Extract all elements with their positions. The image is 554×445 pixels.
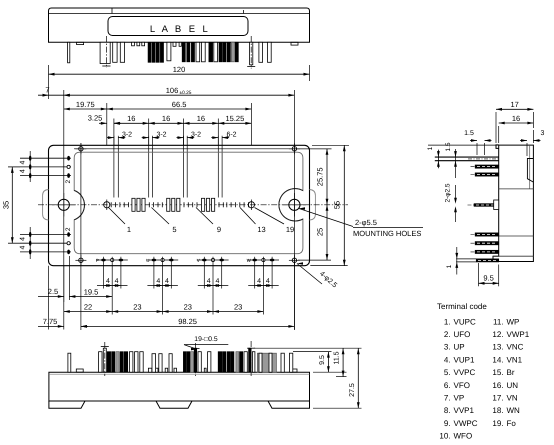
dim 3 side [526, 143, 528, 156]
svg-text:2-φ2.5: 2-φ2.5 [445, 183, 452, 202]
svg-text:WN: WN [507, 406, 521, 415]
dim 9.5 bottom view [327, 352, 329, 373]
svg-text:17.: 17. [492, 394, 503, 403]
svg-text:WP: WP [507, 317, 520, 326]
svg-text:19-□0.5: 19-□0.5 [194, 336, 218, 343]
dim 66.5 [107, 108, 252, 110]
svg-text:4: 4 [20, 237, 27, 241]
dim 1 side [428, 144, 498, 146]
svg-text:13.: 13. [492, 343, 503, 352]
svg-text:1.5: 1.5 [464, 130, 474, 137]
front view inner case outline with mounting bosses [74, 152, 303, 254]
side view inner wall line [529, 145, 531, 189]
svg-text:VN: VN [507, 394, 518, 403]
dim 11.5 bottom view [342, 348, 344, 376]
svg-text:12.: 12. [492, 330, 503, 339]
top view pins [68, 42, 70, 63]
svg-text:16: 16 [127, 114, 135, 123]
corner hole column line left [80, 143, 82, 330]
svg-text:1: 1 [127, 225, 131, 234]
top view: module side elevation with label [49, 8, 310, 69]
svg-text:7.75: 7.75 [43, 317, 58, 326]
corner holes horizontal line [74, 148, 332, 150]
svg-text:66.5: 66.5 [172, 100, 187, 109]
dim 25 [326, 205, 328, 260]
front view: module top/plan view [2, 143, 349, 330]
svg-text:W: W [247, 258, 252, 263]
svg-text:9.5: 9.5 [483, 274, 493, 283]
svg-text:13: 13 [257, 225, 265, 234]
left mounting hole [58, 199, 69, 210]
svg-text:MOUNTING HOLES: MOUNTING HOLES [353, 229, 421, 238]
dim 1 bottom side view [456, 247, 458, 275]
svg-text:106: 106 [166, 86, 179, 95]
svg-text:VVP1: VVP1 [454, 406, 475, 415]
svg-text:17: 17 [511, 100, 519, 109]
dim 9.5 side [478, 263, 480, 286]
side view top pin row (no.1 row) ext lines [435, 156, 499, 158]
top view bottom recess nub left [77, 42, 84, 44]
svg-text:16: 16 [512, 114, 520, 123]
mounting hole vertical centerlines (extension) [63, 145, 65, 302]
dim 19.75 [64, 108, 107, 110]
svg-text:1.: 1. [444, 317, 451, 326]
ext lines below front view [48, 266, 50, 330]
svg-text:L A B E L: L A B E L [150, 24, 210, 35]
svg-text:23: 23 [133, 302, 141, 311]
bottom power pin rows [96, 259, 128, 261]
svg-text:1.5: 1.5 [445, 142, 452, 151]
dim 55 [343, 145, 345, 265]
svg-text:18.: 18. [492, 406, 503, 415]
svg-text:19.5: 19.5 [84, 287, 99, 296]
svg-text:4: 4 [257, 278, 261, 285]
left signal pin column lower group [20, 234, 71, 236]
svg-text:U: U [146, 258, 149, 263]
corner holes callout 4-phi2.5 [297, 264, 322, 285]
svg-text:VFO: VFO [454, 381, 470, 390]
svg-text:Fo: Fo [507, 419, 517, 428]
dim 2-phi2.5 side [454, 198, 457, 204]
right side ext lines [297, 148, 332, 150]
svg-text:16.: 16. [492, 381, 503, 390]
corner fixing holes 4-phi2.5 [79, 147, 83, 151]
bottom view: module side elevation flipped [49, 341, 310, 408]
svg-text:Terminal code: Terminal code [437, 302, 487, 311]
svg-text:4: 4 [156, 278, 160, 285]
svg-text:7.: 7. [444, 394, 451, 403]
svg-text:±0.25: ±0.25 [180, 90, 192, 96]
svg-text:11.5: 11.5 [334, 351, 341, 364]
svg-text:2: 2 [65, 180, 72, 184]
svg-text:4: 4 [20, 169, 27, 173]
dim 22 [64, 311, 112, 313]
side view divider lines [499, 188, 534, 190]
svg-text:27.5: 27.5 [349, 383, 356, 397]
left ear tab on outer edge [43, 190, 49, 221]
svg-text:35: 35 [2, 201, 11, 209]
control pin ticks row [110, 202, 112, 207]
svg-text:4: 4 [207, 278, 211, 285]
svg-text:23: 23 [234, 302, 242, 311]
svg-text:9: 9 [217, 225, 221, 234]
dim 3.25 [99, 122, 107, 124]
label plate [108, 17, 248, 36]
left mounting boss arc [74, 190, 84, 219]
svg-text:4: 4 [165, 278, 169, 285]
svg-text:25: 25 [315, 228, 324, 236]
svg-text:VNC: VNC [507, 343, 524, 352]
right mounting hole [289, 199, 300, 210]
svg-text:5: 5 [172, 225, 176, 234]
svg-text:2.: 2. [444, 330, 451, 339]
side view: module right elevation [435, 145, 534, 275]
svg-text:19.: 19. [492, 419, 503, 428]
dims 4 4 under power pins [103, 257, 105, 289]
dim 7 [38, 94, 64, 96]
bottom view base feet [49, 401, 310, 408]
dim 16 x3 [114, 122, 149, 124]
svg-text:4: 4 [115, 278, 119, 285]
left signal pin column upper group [20, 157, 71, 159]
svg-text:55: 55 [333, 201, 342, 209]
svg-text:23: 23 [184, 302, 192, 311]
svg-text:WFO: WFO [454, 432, 473, 441]
svg-text:120: 120 [173, 65, 186, 74]
svg-text:VUPC: VUPC [454, 317, 476, 326]
dim 35 [11, 167, 13, 243]
dim 98.25 [81, 325, 295, 327]
front view outer body outline [49, 145, 310, 265]
svg-text:UP: UP [454, 343, 465, 352]
side view right notch [527, 159, 533, 183]
terminal slot groups [132, 198, 135, 211]
dim 2.5 [38, 296, 64, 298]
svg-text:16: 16 [197, 114, 205, 123]
svg-text:2-φ5.5: 2-φ5.5 [355, 218, 377, 227]
svg-text:19.75: 19.75 [76, 100, 95, 109]
svg-text:UN: UN [507, 381, 519, 390]
svg-text:2.5: 2.5 [48, 287, 58, 296]
dim 1.5 side horizontal [476, 143, 478, 155]
svg-text:7: 7 [45, 86, 49, 95]
bottom view body outline [49, 372, 310, 401]
svg-text:VWP1: VWP1 [507, 330, 530, 339]
bottom view pins [68, 353, 71, 372]
marked pin axes bottom view [104, 342, 106, 376]
terminal 19 hole [248, 202, 254, 208]
bottom view top nubs [76, 369, 83, 372]
dim 120 [49, 73, 310, 75]
top view bottom nub right [291, 42, 298, 45]
svg-text:9.5: 9.5 [319, 355, 326, 365]
side view body outline [493, 145, 533, 262]
terminal number leaders and labels 1 5 9 13 19 [109, 208, 126, 225]
svg-text:3.25: 3.25 [88, 114, 103, 123]
svg-text:2: 2 [65, 227, 72, 231]
screw axis pin1 [105, 36, 107, 68]
svg-text:9.: 9. [444, 419, 451, 428]
svg-text:P: P [96, 258, 99, 263]
svg-text:15.: 15. [492, 368, 503, 377]
svg-text:4: 4 [215, 278, 219, 285]
svg-text:22: 22 [84, 302, 92, 311]
dim 106 +-0.25 [64, 94, 295, 96]
svg-text:1: 1 [446, 264, 453, 268]
svg-text:14.: 14. [492, 355, 503, 364]
svg-text:4.: 4. [444, 355, 451, 364]
top view lid line [49, 13, 310, 15]
right mounting boss arc [279, 189, 303, 221]
dim 16 side [498, 126, 500, 143]
svg-text:5.: 5. [444, 368, 451, 377]
svg-text:25.75: 25.75 [315, 167, 324, 186]
dim 27.5 bottom view [357, 348, 359, 408]
screw axis pin19 [250, 36, 252, 69]
svg-text:8.: 8. [444, 406, 451, 415]
svg-text:1: 1 [427, 146, 434, 150]
side view bottom power pin row [456, 258, 476, 260]
svg-text:4: 4 [266, 278, 270, 285]
dim 1.5 side vertical [455, 149, 457, 178]
svg-text:16: 16 [162, 114, 170, 123]
dim 25.75 [326, 149, 328, 205]
dimension extension lines above front view [48, 65, 50, 99]
svg-text:4: 4 [20, 161, 27, 165]
dim 15.25 [218, 122, 251, 124]
side view pins upper [475, 165, 499, 168]
svg-text:6.: 6. [444, 381, 451, 390]
svg-text:15.25: 15.25 [226, 114, 245, 123]
svg-text:4: 4 [106, 278, 110, 285]
svg-text:11.: 11. [493, 317, 504, 326]
dim 4 4 left upper [29, 151, 31, 182]
svg-text:V: V [197, 258, 200, 263]
mounting holes callout [299, 209, 353, 227]
right ear tab on outer edge [310, 190, 316, 221]
dim 7.75 [38, 325, 64, 327]
terminal 1 hole [104, 202, 110, 208]
svg-text:VP: VP [454, 394, 465, 403]
horizontal centerline [38, 204, 348, 206]
bottom view right dims [254, 347, 362, 349]
svg-text:10.: 10. [439, 432, 450, 441]
svg-text:19: 19 [286, 225, 294, 234]
svg-text:4: 4 [20, 246, 27, 250]
svg-text:3: 3 [541, 130, 545, 137]
svg-text:VWPC: VWPC [454, 419, 478, 428]
svg-text:VUP1: VUP1 [454, 355, 475, 364]
svg-text:98.25: 98.25 [178, 317, 197, 326]
side view pins lower [475, 233, 499, 236]
svg-text:VVPC: VVPC [454, 368, 476, 377]
dim 4 4 left lower [29, 227, 31, 259]
top view body outline [49, 8, 310, 42]
dim 17 side [495, 112, 497, 143]
svg-text:VN1: VN1 [507, 355, 523, 364]
svg-text:Br: Br [507, 368, 515, 377]
svg-text:3.: 3. [444, 343, 451, 352]
svg-text:UFO: UFO [454, 330, 471, 339]
lid joint ticks [111, 8, 113, 14]
side view middle pin [474, 204, 499, 207]
dims 23 x3 [112, 311, 162, 313]
dim 19.5 [69, 296, 112, 298]
